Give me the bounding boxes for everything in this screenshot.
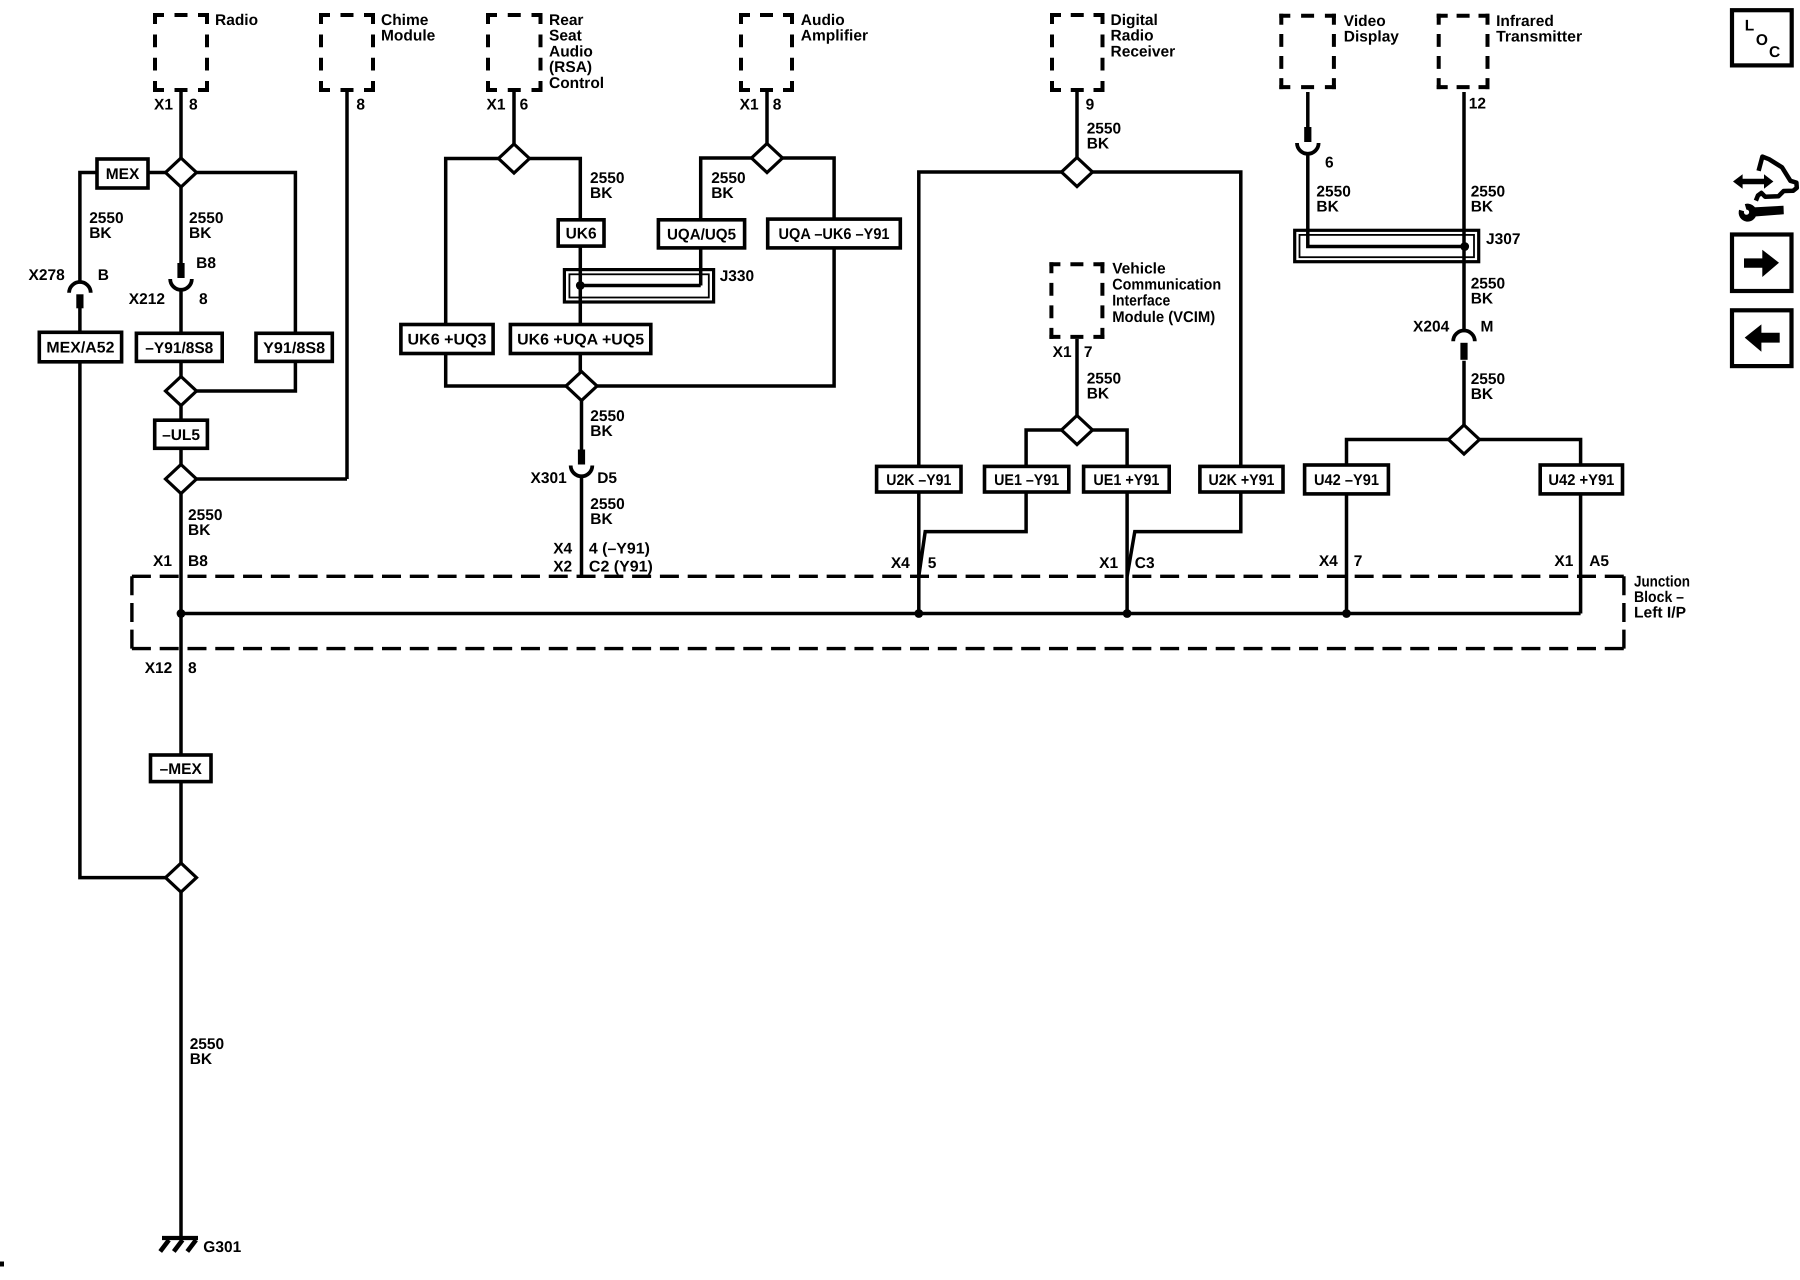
- svg-text:8: 8: [356, 97, 365, 114]
- svg-text:Audio: Audio: [801, 12, 845, 29]
- svg-text:Radio: Radio: [215, 12, 258, 29]
- svg-text:X4: X4: [891, 555, 910, 572]
- svg-text:O: O: [1756, 32, 1768, 49]
- svg-text:BK: BK: [89, 225, 112, 242]
- svg-text:8: 8: [188, 660, 197, 677]
- svg-text:Chime: Chime: [381, 12, 429, 29]
- svg-text:U2K +Y91: U2K +Y91: [1208, 472, 1274, 489]
- svg-text:Block –: Block –: [1634, 589, 1684, 606]
- svg-text:BK: BK: [590, 423, 613, 440]
- svg-text:A5: A5: [1589, 553, 1609, 570]
- svg-text:B: B: [98, 267, 109, 284]
- svg-text:6: 6: [1325, 154, 1334, 171]
- svg-text:M: M: [1481, 319, 1494, 336]
- svg-text:UE1 +Y91: UE1 +Y91: [1093, 472, 1159, 489]
- svg-text:B8: B8: [196, 255, 216, 272]
- svg-text:Communication: Communication: [1112, 277, 1221, 294]
- svg-text:X2: X2: [553, 559, 572, 576]
- svg-text:UK6 +UQA +UQ5: UK6 +UQA +UQ5: [517, 332, 644, 349]
- svg-text:C: C: [1769, 44, 1780, 61]
- svg-text:X1: X1: [1053, 344, 1072, 361]
- svg-text:BK: BK: [1471, 199, 1494, 216]
- svg-text:X1: X1: [740, 97, 759, 114]
- svg-text:9: 9: [1086, 97, 1095, 114]
- svg-text:X301: X301: [530, 470, 567, 487]
- svg-text:Junction: Junction: [1634, 574, 1690, 591]
- svg-text:X4: X4: [1319, 553, 1338, 570]
- svg-text:X12: X12: [145, 660, 173, 677]
- svg-text:Rear: Rear: [549, 12, 583, 29]
- svg-text:B8: B8: [188, 553, 208, 570]
- svg-text:BK: BK: [590, 511, 613, 528]
- svg-text:Module: Module: [381, 28, 436, 45]
- svg-text:X1: X1: [154, 97, 173, 114]
- svg-text:Video: Video: [1344, 13, 1386, 30]
- svg-text:Display: Display: [1344, 29, 1400, 46]
- svg-text:X1: X1: [1099, 555, 1118, 572]
- svg-text:BK: BK: [590, 185, 613, 202]
- svg-text:MEX/A52: MEX/A52: [46, 340, 114, 357]
- svg-text:UK6 +UQ3: UK6 +UQ3: [408, 332, 487, 349]
- svg-text:D5: D5: [597, 470, 617, 487]
- svg-text:U2K –Y91: U2K –Y91: [886, 472, 951, 489]
- svg-text:X212: X212: [129, 291, 165, 308]
- svg-text:BK: BK: [1087, 386, 1110, 403]
- svg-text:MEX: MEX: [106, 166, 140, 183]
- svg-text:7: 7: [1084, 344, 1093, 361]
- svg-text:7: 7: [1354, 553, 1363, 570]
- svg-text:BK: BK: [1471, 386, 1494, 403]
- svg-text:U42 +Y91: U42 +Y91: [1548, 472, 1614, 489]
- svg-text:(RSA): (RSA): [549, 59, 592, 76]
- svg-text:Module (VCIM): Module (VCIM): [1112, 309, 1215, 326]
- svg-text:8: 8: [199, 291, 208, 308]
- svg-text:–UL5: –UL5: [162, 427, 200, 444]
- svg-text:X1: X1: [153, 553, 172, 570]
- svg-text:UE1 –Y91: UE1 –Y91: [994, 472, 1059, 489]
- svg-text:8: 8: [189, 97, 198, 114]
- svg-text:UK6: UK6: [566, 226, 597, 243]
- svg-text:Y91/8S8: Y91/8S8: [263, 340, 325, 357]
- svg-text:6: 6: [520, 97, 529, 114]
- svg-text:–Y91/8S8: –Y91/8S8: [145, 340, 213, 357]
- svg-text:8: 8: [773, 97, 782, 114]
- svg-text:Receiver: Receiver: [1111, 43, 1176, 60]
- svg-text:Infrared: Infrared: [1496, 13, 1554, 30]
- svg-text:L: L: [1745, 18, 1754, 35]
- svg-text:–MEX: –MEX: [160, 761, 203, 778]
- svg-text:BK: BK: [1316, 199, 1339, 216]
- svg-text:BK: BK: [1087, 135, 1110, 152]
- svg-text:BK: BK: [711, 185, 734, 202]
- svg-text:C2 (Y91): C2 (Y91): [589, 559, 653, 576]
- svg-text:J330: J330: [720, 268, 754, 285]
- svg-text:5: 5: [928, 555, 937, 572]
- svg-text:C3: C3: [1135, 555, 1155, 572]
- svg-text:X278: X278: [28, 267, 65, 284]
- svg-text:Transmitter: Transmitter: [1496, 29, 1582, 46]
- svg-text:Amplifier: Amplifier: [801, 28, 868, 45]
- svg-text:Interface: Interface: [1112, 293, 1170, 310]
- svg-text:BK: BK: [188, 522, 211, 539]
- svg-text:BK: BK: [1471, 290, 1494, 307]
- svg-text:UQA –UK6 –Y91: UQA –UK6 –Y91: [779, 226, 890, 243]
- svg-text:X1: X1: [1554, 553, 1573, 570]
- svg-text:Left I/P: Left I/P: [1634, 605, 1686, 622]
- svg-text:U42 –Y91: U42 –Y91: [1314, 472, 1379, 489]
- svg-text:Audio: Audio: [549, 43, 593, 60]
- svg-text:BK: BK: [189, 225, 212, 242]
- svg-text:J307: J307: [1486, 231, 1520, 248]
- svg-text:Vehicle: Vehicle: [1112, 261, 1166, 278]
- svg-text:12: 12: [1469, 96, 1486, 113]
- svg-text:Radio: Radio: [1111, 28, 1154, 45]
- svg-text:X204: X204: [1413, 319, 1450, 336]
- svg-text:Digital: Digital: [1111, 12, 1158, 29]
- svg-text:X4: X4: [553, 541, 572, 558]
- svg-text:G301: G301: [203, 1239, 241, 1256]
- svg-text:4 (–Y91): 4 (–Y91): [589, 541, 650, 558]
- svg-text:Control: Control: [549, 75, 604, 92]
- svg-text:Seat: Seat: [549, 28, 582, 45]
- svg-text:UQA/UQ5: UQA/UQ5: [667, 226, 736, 243]
- svg-text:BK: BK: [190, 1051, 213, 1068]
- svg-text:X1: X1: [487, 97, 506, 114]
